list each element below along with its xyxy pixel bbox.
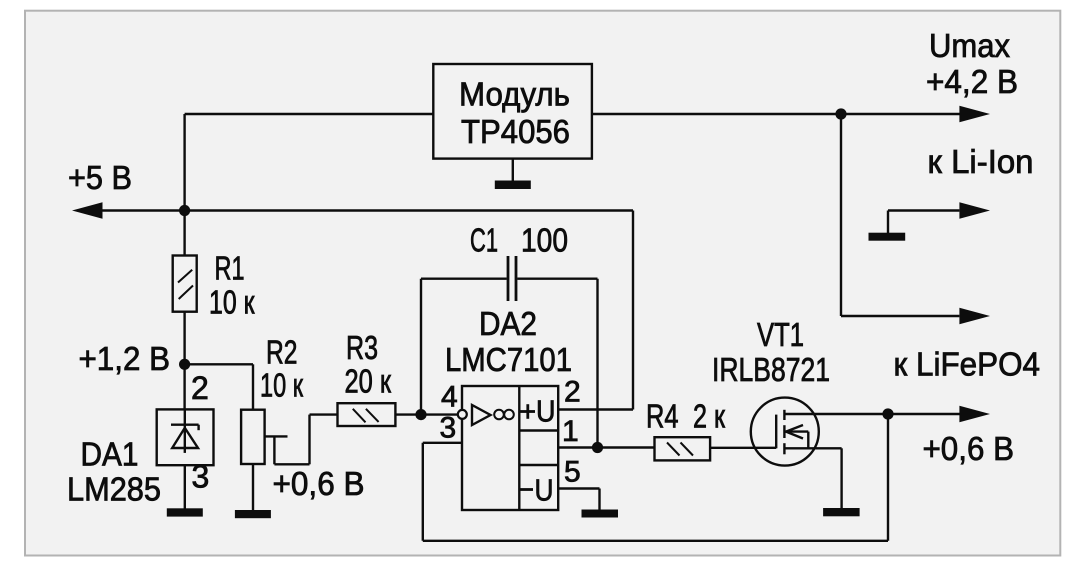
wire top rail to module: [185, 114, 434, 256]
svg-text:+5 В: +5 В: [68, 159, 132, 196]
node Li-Ion plus arrow terminal: [959, 202, 990, 218]
label -U: [521, 488, 534, 491]
ground (op-amp pin5): [582, 510, 619, 518]
svg-text:VT1: VT1: [757, 316, 804, 353]
wire op-amp pin5 to ground: [558, 489, 599, 511]
svg-text:3: 3: [440, 412, 457, 445]
svg-text:LMC7101: LMC7101: [445, 341, 572, 378]
node R3/C1 junction: [415, 409, 426, 420]
svg-text:1: 1: [562, 415, 579, 448]
svg-text:IRLB8721: IRLB8721: [712, 351, 830, 388]
wire to LiFePO4 arrow: [841, 114, 959, 316]
zener diode DA1 LM285: [157, 409, 214, 465]
node output junction: [835, 108, 846, 119]
resistor R1: [173, 256, 197, 312]
wire R2 tap to R3: [274, 415, 337, 465]
svg-text:10 к: 10 к: [260, 367, 303, 404]
wire module output to Umax arrow: [592, 113, 960, 115]
wire op-amp pin2 to +5V rail: [558, 211, 633, 410]
wire R2 bottom to ground: [252, 464, 254, 511]
resistor R4: [655, 437, 711, 460]
svg-text:5: 5: [564, 456, 581, 489]
svg-text:DA2: DA2: [479, 305, 537, 342]
wire +5V rail: [98, 209, 633, 211]
wire VT1 source to ground: [784, 448, 841, 508]
svg-text:R1: R1: [215, 250, 245, 287]
wire node to R2 top: [185, 364, 253, 409]
svg-text:C1: C1: [470, 222, 498, 259]
svg-text:+0,6 В: +0,6 В: [923, 430, 1015, 467]
wire R4 to gate: [710, 447, 776, 449]
svg-text:+4,2 В: +4,2 В: [926, 63, 1018, 100]
node LiFePO4 arrow terminal: [959, 308, 990, 324]
wire DA1 pin3 to ground: [184, 465, 186, 509]
node output/C1/feedback junction: [592, 442, 603, 453]
wire C1 right branch: [517, 279, 597, 448]
ground (VT1 source): [823, 508, 860, 516]
svg-text:Umax: Umax: [929, 27, 1010, 64]
svg-text:R3: R3: [346, 329, 378, 366]
svg-text:+1,2 В: +1,2 В: [79, 340, 171, 377]
node LiFePO4 plus arrow terminal: [959, 406, 990, 422]
svg-text:100: 100: [521, 222, 568, 259]
ground (Li-Ion minus bar): [869, 233, 906, 241]
node +5V rail arrow (left terminal): [72, 202, 103, 218]
module TP4056 box: [433, 64, 592, 159]
svg-text:LM285: LM285: [67, 471, 161, 508]
node junction +5V/R1: [179, 205, 190, 216]
svg-text:к LiFePO4: к LiFePO4: [894, 346, 1041, 383]
resistor R3: [338, 403, 396, 426]
wire VT1 drain to output arrow: [784, 413, 960, 415]
wire R1 to node +1,2V: [183, 312, 185, 410]
wire feedback output to pin3: [423, 414, 888, 541]
svg-text:R4: R4: [646, 398, 679, 435]
node VT1 drain junction: [882, 408, 893, 419]
svg-text:U: U: [536, 394, 556, 429]
svg-text:2 к: 2 к: [693, 398, 725, 435]
node Umax output arrow terminal: [959, 106, 990, 122]
node +1,2V junction: [179, 359, 190, 370]
op-amp DA2 LMC7101: [458, 386, 558, 510]
svg-text:4: 4: [441, 381, 458, 414]
ground (DA1): [167, 508, 203, 516]
svg-text:10 к: 10 к: [209, 284, 255, 321]
svg-text:+0,6 В: +0,6 В: [273, 465, 365, 502]
svg-text:Модуль: Модуль: [459, 76, 570, 113]
svg-text:U: U: [535, 473, 554, 508]
svg-text:3: 3: [192, 459, 210, 495]
ground (R2): [235, 510, 271, 518]
wire op-amp pin1 output to R4: [558, 446, 654, 448]
label +U: [521, 404, 536, 419]
resistor R2 (with tap): [241, 410, 287, 464]
transistor VT1 IRLB8721: [751, 398, 819, 466]
svg-text:R2: R2: [266, 334, 298, 371]
wire R3 to op-amp input: [395, 413, 458, 415]
wire Li-Ion minus terminal: [888, 211, 959, 234]
wire C1 left branch: [421, 279, 507, 415]
svg-text:2: 2: [564, 376, 581, 409]
ground (module TP4056): [495, 159, 531, 189]
svg-text:20 к: 20 к: [345, 363, 392, 400]
svg-text:ТР4056: ТР4056: [461, 113, 570, 150]
svg-text:2: 2: [191, 370, 209, 406]
svg-text:DA1: DA1: [81, 436, 139, 473]
svg-text:к Li-Ion: к Li-Ion: [928, 143, 1034, 180]
capacitor C1: [508, 256, 516, 301]
